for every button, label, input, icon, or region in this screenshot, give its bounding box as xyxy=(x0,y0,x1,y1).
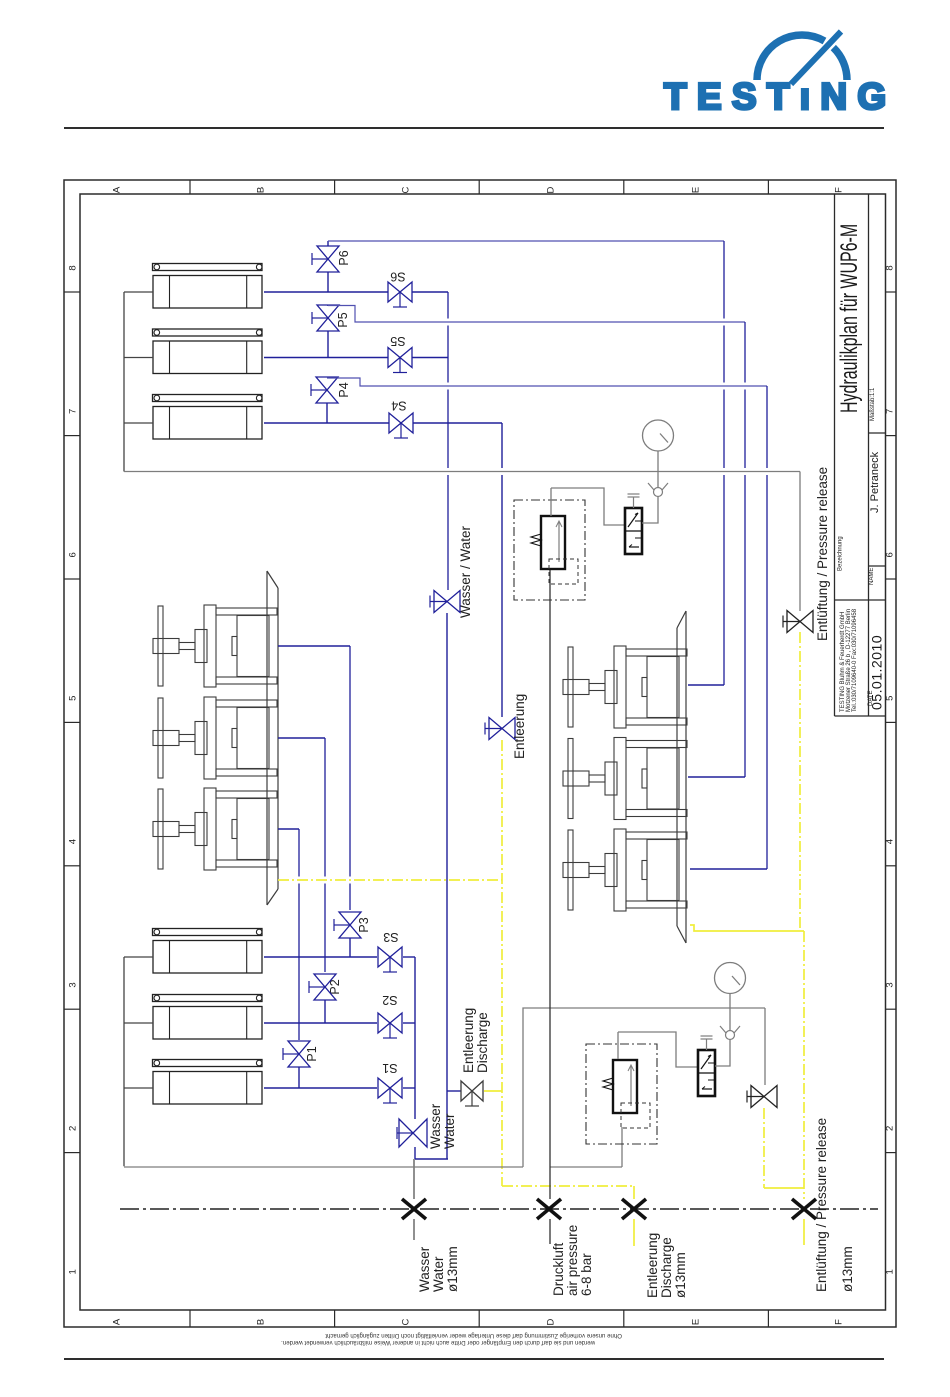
svg-text:S2: S2 xyxy=(382,993,397,1007)
svg-text:Water: Water xyxy=(431,1256,446,1292)
svg-text:05.01.2010: 05.01.2010 xyxy=(870,635,886,710)
svg-text:8: 8 xyxy=(885,265,896,270)
svg-text:6: 6 xyxy=(885,552,896,557)
svg-text:3: 3 xyxy=(885,982,896,987)
svg-text:Wasser: Wasser xyxy=(417,1246,432,1292)
svg-text:3: 3 xyxy=(68,982,79,987)
svg-text:ø13mm: ø13mm xyxy=(840,1246,855,1292)
svg-text:S6: S6 xyxy=(390,270,405,284)
svg-text:Tel.:030/7109640-0 Fax:030/710: Tel.:030/7109640-0 Fax:030/71096458 xyxy=(852,608,858,712)
svg-text:Water: Water xyxy=(442,1113,457,1149)
svg-text:Bezeichnung: Bezeichnung xyxy=(838,536,844,571)
svg-text:B: B xyxy=(256,1319,267,1325)
svg-text:5: 5 xyxy=(68,696,79,701)
svg-text:4: 4 xyxy=(885,839,896,844)
svg-text:7: 7 xyxy=(68,409,79,414)
svg-text:TESTıNG: TESTıNG xyxy=(664,76,896,117)
svg-text:E: E xyxy=(691,187,702,193)
svg-text:Entlüftung / Pressure release: Entlüftung / Pressure release xyxy=(815,467,830,641)
svg-text:B: B xyxy=(256,187,267,193)
svg-text:D: D xyxy=(546,1318,557,1325)
svg-text:S1: S1 xyxy=(382,1061,397,1075)
svg-text:NAME: NAME xyxy=(869,568,875,585)
svg-text:8: 8 xyxy=(68,265,79,270)
svg-text:P4: P4 xyxy=(337,382,351,397)
svg-text:Hydraulikplan für WUP6-M: Hydraulikplan für WUP6-M xyxy=(837,224,863,413)
svg-text:Ohne unsere vorherige Zustimmu: Ohne unsere vorherige Zustimmung darf di… xyxy=(325,1332,622,1339)
svg-text:J. Petraneck: J. Petraneck xyxy=(869,451,881,513)
svg-text:Druckluft: Druckluft xyxy=(551,1242,566,1296)
svg-text:Maßstab:1:1: Maßstab:1:1 xyxy=(870,387,876,421)
svg-text:E: E xyxy=(691,1319,702,1325)
svg-text:1: 1 xyxy=(885,1269,896,1274)
svg-text:P6: P6 xyxy=(337,250,351,265)
svg-text:Entlüftung / Pressure release: Entlüftung / Pressure release xyxy=(814,1118,829,1292)
svg-text:air pressure: air pressure xyxy=(565,1225,580,1296)
svg-text:Wasser / Water: Wasser / Water xyxy=(458,525,473,618)
svg-text:C: C xyxy=(401,186,412,193)
svg-text:A: A xyxy=(112,1318,123,1325)
svg-text:P3: P3 xyxy=(357,917,371,932)
svg-text:werden und sie darf durch den: werden und sie darf durch den Empfänger … xyxy=(281,1339,596,1346)
svg-text:4: 4 xyxy=(68,839,79,844)
svg-text:S3: S3 xyxy=(383,930,398,944)
svg-text:Discharge: Discharge xyxy=(659,1237,674,1298)
svg-text:ø13mm: ø13mm xyxy=(445,1246,460,1292)
svg-text:5: 5 xyxy=(885,696,896,701)
svg-text:2: 2 xyxy=(68,1126,79,1131)
svg-text:Entleerung: Entleerung xyxy=(645,1233,660,1298)
svg-text:S4: S4 xyxy=(391,399,406,413)
svg-text:ø13mm: ø13mm xyxy=(673,1252,688,1298)
svg-text:F: F xyxy=(834,1319,845,1325)
svg-text:Wasser: Wasser xyxy=(428,1103,443,1149)
svg-text:6-8 bar: 6-8 bar xyxy=(579,1253,594,1296)
svg-text:Entleerung: Entleerung xyxy=(461,1008,476,1073)
svg-text:2: 2 xyxy=(885,1126,896,1131)
svg-text:1: 1 xyxy=(68,1269,79,1274)
svg-text:F: F xyxy=(834,187,845,193)
svg-text:P5: P5 xyxy=(336,312,350,327)
svg-text:7: 7 xyxy=(885,409,896,414)
svg-text:C: C xyxy=(401,1318,412,1325)
svg-text:S5: S5 xyxy=(390,334,405,348)
svg-text:P1: P1 xyxy=(305,1046,319,1061)
svg-text:A: A xyxy=(112,186,123,193)
svg-text:6: 6 xyxy=(68,552,79,557)
svg-text:Entleerung: Entleerung xyxy=(512,694,527,759)
svg-text:D: D xyxy=(546,186,557,193)
svg-text:Discharge: Discharge xyxy=(475,1012,490,1073)
